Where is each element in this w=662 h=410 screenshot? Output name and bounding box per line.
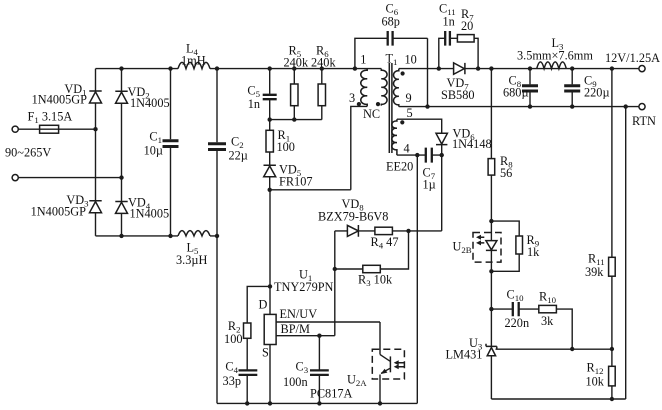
wire pin10 rail: [399, 68, 639, 70]
svg-text:PC817A: PC817A: [310, 386, 352, 400]
node C8 bottom: [528, 104, 532, 108]
node AC top junction: [93, 127, 97, 131]
svg-text:22µ: 22µ: [229, 148, 248, 162]
transformer T1 core: [386, 51, 398, 153]
svg-text:220µ: 220µ: [584, 86, 610, 100]
node C1 top: [168, 66, 172, 70]
svg-text:EN/UV: EN/UV: [280, 307, 318, 321]
LED U2B of PC817A: [453, 233, 502, 272]
wire RTN riser: [625, 107, 627, 399]
node C4 rail: [245, 401, 249, 405]
node C1 bottom: [168, 234, 172, 238]
node R5 top: [292, 66, 296, 70]
resistor R4 47: [371, 227, 442, 251]
wire bias return riser: [416, 155, 418, 403]
transformer phase dot NC: [376, 102, 380, 106]
wire bottom return rail: [96, 235, 218, 237]
svg-text:R4 47: R4 47: [371, 235, 399, 251]
transformer T1 NC winding: [363, 69, 387, 121]
wire RTN rail pin9: [399, 106, 639, 108]
svg-text:R3 10k: R3 10k: [358, 273, 393, 289]
wire AC line top: [18, 128, 95, 130]
terminal AC input N: [12, 175, 18, 181]
svg-text:EE20: EE20: [386, 159, 413, 173]
resistor R2 100: [224, 286, 270, 369]
resistor R10 3k: [539, 290, 572, 350]
fuse F1 3.15A: [28, 110, 73, 134]
node R2 tap: [268, 284, 272, 288]
svg-text:68p: 68p: [382, 14, 400, 28]
svg-text:BP/M: BP/M: [281, 322, 310, 336]
svg-text:BZX79-B6V8: BZX79-B6V8: [318, 210, 388, 224]
node R3 left tap: [333, 267, 337, 271]
svg-text:NC: NC: [363, 107, 380, 121]
capacitor C3 100n: [283, 336, 329, 404]
svg-text:S: S: [262, 345, 269, 359]
node AC bottom junction: [119, 175, 123, 179]
svg-text:10µ: 10µ: [144, 143, 163, 157]
wire left ground drop: [216, 236, 218, 404]
svg-text:9: 9: [406, 91, 412, 105]
diode VD6 1N4148: [436, 126, 492, 155]
svg-text:56: 56: [500, 166, 512, 180]
transformer phase dot primary: [357, 102, 361, 106]
svg-text:3.3µH: 3.3µH: [176, 253, 207, 267]
svg-text:1N4005GP: 1N4005GP: [31, 204, 87, 218]
node ref R10 junction: [570, 347, 574, 351]
node R4 R3 junction: [406, 229, 410, 233]
node C5 bottom: [268, 117, 272, 121]
node opto LED top: [489, 219, 493, 223]
resistor R6 240k: [311, 43, 336, 119]
node VD2 top: [119, 66, 123, 70]
svg-text:TNY279PN: TNY279PN: [274, 280, 334, 294]
svg-text:5: 5: [407, 106, 413, 120]
node pin4 ground tap: [415, 153, 419, 157]
svg-text:RTN: RTN: [632, 114, 656, 128]
terminal AC input L: [12, 126, 18, 132]
resistor R5 240k: [284, 43, 309, 119]
svg-text:1N4148: 1N4148: [452, 137, 492, 151]
diode VD3 1N4005GP: [31, 193, 102, 218]
op-amp U1 TNY279PN body: [259, 268, 334, 360]
node R9 bottom: [489, 269, 493, 273]
terminal 12V output: [605, 51, 660, 72]
node R5 bottom: [292, 117, 296, 121]
wire pin4 line: [397, 154, 442, 156]
svg-text:10k: 10k: [586, 375, 605, 389]
transformer T1 bias winding pins 5-4: [392, 106, 413, 155]
resistor R11 39k: [585, 69, 615, 349]
wire LED to LM431: [490, 271, 492, 346]
svg-text:4: 4: [404, 141, 410, 155]
node drain clamp junction: [268, 188, 272, 192]
wire S pin: [269, 345, 271, 404]
node R6 top: [320, 66, 324, 70]
svg-text:F1 3.15A: F1 3.15A: [28, 110, 73, 126]
svg-text:1N4005: 1N4005: [130, 207, 170, 221]
resistor R1 100: [266, 120, 295, 166]
capacitor C7 1u: [423, 148, 436, 192]
diode VD7 SB580: [441, 63, 475, 102]
svg-text:240k: 240k: [284, 55, 309, 69]
node R8 top: [489, 66, 493, 70]
svg-text:3k: 3k: [541, 314, 554, 328]
wire secondary ground rail: [491, 398, 625, 400]
wire AC line bottom: [18, 177, 121, 179]
capacitor C8 680u: [503, 69, 538, 107]
node VD6 C7 junction: [440, 153, 444, 157]
wire primary ground rail: [217, 402, 417, 404]
capacitor C11 1n: [439, 2, 458, 69]
svg-text:20: 20: [461, 19, 473, 33]
wire bridge right column: [121, 69, 123, 236]
node VD4 bottom: [119, 234, 123, 238]
svg-text:1k: 1k: [527, 245, 540, 259]
wire drain horizontal: [270, 189, 351, 191]
svg-text:D: D: [259, 298, 268, 312]
wire clamp bottom: [270, 119, 322, 121]
wire R4 to R3 drop: [380, 231, 408, 269]
inductor L3: [517, 36, 593, 69]
node C2 top: [215, 66, 219, 70]
resistor R7 20: [457, 7, 478, 68]
wire zener branch left drop: [334, 231, 336, 336]
shunt regulator U3 LM431: [446, 336, 497, 399]
wire LM431 ref line: [496, 348, 612, 350]
capacitor C5 1n: [247, 69, 276, 120]
wire bridge left column: [95, 69, 97, 236]
node C11 tap: [437, 66, 441, 70]
svg-text:39k: 39k: [585, 265, 604, 279]
capacitor C2 22u: [208, 69, 248, 236]
svg-text:1N4005: 1N4005: [130, 96, 170, 110]
node C3 rail: [317, 401, 321, 405]
svg-text:1n: 1n: [248, 97, 260, 111]
svg-text:240k: 240k: [311, 55, 336, 69]
wire EN/UV line: [276, 321, 380, 323]
resistor R3 10k: [335, 265, 393, 288]
node opto emitter rail: [378, 401, 382, 405]
svg-text:1µ: 1µ: [423, 177, 436, 191]
svg-text:1N4005GP: 1N4005GP: [32, 93, 88, 107]
node pin1 junction: [353, 66, 357, 70]
transformer T1 secondary winding pins 10-9: [394, 53, 417, 107]
inductor L5 3.3uH: [176, 231, 210, 267]
capacitor C6 68p: [355, 2, 428, 107]
transformer T1 primary winding pins 1-3: [349, 53, 367, 107]
diode VD1 1N4005GP: [32, 82, 102, 106]
diode VD8 BZX79-B6V8 zener: [318, 197, 388, 237]
svg-text:680µ: 680µ: [503, 86, 529, 100]
svg-text:FR107: FR107: [279, 175, 313, 189]
svg-text:LM431: LM431: [446, 347, 483, 361]
node BP/M C3 tap: [317, 334, 321, 338]
wire drain drop to U1: [269, 190, 271, 315]
capacitor C10 220n: [491, 288, 538, 330]
svg-text:100n: 100n: [283, 375, 308, 389]
wire EN/UV to collector: [379, 322, 381, 355]
wire VD6 node to zener: [441, 155, 443, 231]
capacitor C9 220u: [564, 69, 609, 107]
node C5 top: [268, 66, 272, 70]
resistor R12 10k: [586, 349, 616, 399]
svg-text:12V/1.25A: 12V/1.25A: [605, 51, 660, 65]
capacitor C1 10u: [144, 69, 179, 236]
svg-text:33p: 33p: [223, 374, 241, 388]
wire pin5 to VD6: [397, 119, 442, 133]
node R12 ground: [610, 397, 614, 401]
svg-text:3.5mm×7.6mm: 3.5mm×7.6mm: [517, 48, 593, 62]
diode VD4 1N4005: [115, 195, 169, 220]
node RTN drop: [624, 104, 628, 108]
wire pin3 riser: [351, 106, 367, 189]
svg-text:1n: 1n: [443, 14, 455, 28]
node C10 tap: [489, 307, 493, 311]
diode VD5 FR107: [264, 162, 313, 190]
svg-text:SB580: SB580: [441, 88, 475, 102]
diode VD2 1N4005: [115, 85, 169, 110]
node C9 top: [570, 66, 574, 70]
wire BP/M line: [276, 335, 335, 337]
wire top DC rail: [96, 68, 382, 70]
node R7 tap: [476, 66, 480, 70]
transformer phase dot secondary top: [401, 71, 405, 75]
svg-text:1: 1: [360, 53, 366, 67]
inductor L4 1mH: [178, 41, 210, 68]
svg-text:100: 100: [224, 332, 242, 346]
svg-text:1mH: 1mH: [181, 53, 206, 67]
node C2 bottom corner: [215, 234, 219, 238]
svg-text:220n: 220n: [505, 316, 530, 330]
transistor U2A PC817A opto: [310, 349, 404, 403]
node C8 top: [528, 66, 532, 70]
node R11 top tap: [610, 66, 614, 70]
transformer phase dot bias: [400, 120, 404, 124]
capacitor C4 33p: [223, 359, 258, 403]
node C9 bottom: [570, 104, 574, 108]
svg-text:3: 3: [349, 91, 355, 105]
svg-text:10: 10: [405, 53, 417, 67]
svg-text:90~265V: 90~265V: [5, 146, 51, 160]
terminal RTN: [632, 104, 656, 129]
svg-text:100: 100: [277, 140, 295, 154]
node C6 to pin9: [425, 104, 429, 108]
node ref divider junction: [610, 347, 614, 351]
resistor R8 56: [488, 69, 513, 241]
resistor R9 1k: [491, 221, 540, 271]
node S rail: [268, 401, 272, 405]
